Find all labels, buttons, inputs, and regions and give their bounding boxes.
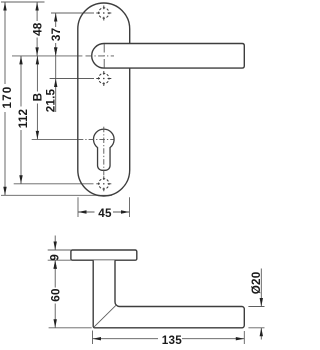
dimension 37 line <box>55 13 57 56</box>
dimension 112 arrows <box>19 56 22 184</box>
dimension 135 line <box>93 338 245 340</box>
hub horizontal centerline <box>86 55 115 57</box>
extension line cylinder center <box>32 138 78 140</box>
extension line 60 bottom <box>49 327 92 329</box>
backplate outline <box>78 3 130 196</box>
extension line plate top <box>1 1 45 3</box>
dimension 112 line <box>20 56 22 184</box>
dimension 48 line <box>36 2 38 56</box>
dimension B line <box>36 56 38 139</box>
dimension 21.5 arrows <box>54 47 57 87</box>
dimension 48 arrows <box>35 2 38 56</box>
svg-text:135: 135 <box>162 334 182 347</box>
svg-text:21.5: 21.5 <box>45 88 58 112</box>
dimension 170 arrows <box>3 2 6 195</box>
extension line plate bottom <box>1 194 112 196</box>
svg-text:60: 60 <box>49 288 62 302</box>
euro profile cylinder cutout <box>94 129 115 170</box>
dimension B arrows <box>36 56 39 139</box>
hub vertical centerline <box>103 44 105 68</box>
dimension 37 arrows <box>54 13 57 56</box>
cylinder vertical centerline <box>103 127 105 177</box>
svg-text:112: 112 <box>17 108 30 128</box>
dimension 45 arrows <box>78 210 130 213</box>
extension lines rose thickness <box>48 249 71 251</box>
svg-text:170: 170 <box>1 86 14 109</box>
svg-text:48: 48 <box>32 22 45 36</box>
top screw hole <box>96 6 111 21</box>
middle screw hole <box>96 71 111 86</box>
svg-text:45: 45 <box>98 207 112 220</box>
svg-text:Ø20: Ø20 <box>250 271 263 294</box>
dimension 9 arrows <box>54 242 57 269</box>
dimension 45 extension lines <box>77 197 79 217</box>
svg-text:37: 37 <box>50 28 63 41</box>
diameter 20 extension lines <box>248 306 264 308</box>
dimension 9 line <box>54 236 56 251</box>
cylinder horizontal centerline <box>78 138 114 140</box>
dimension 60 line <box>54 260 56 328</box>
dimension 170 line <box>4 2 6 195</box>
diameter 20 arrows <box>260 298 263 336</box>
extension line top screw center <box>51 12 94 14</box>
handle profile (neck + lever arm) <box>93 260 244 328</box>
diameter 20 dimension line <box>260 269 262 340</box>
lever handle (plan view) <box>92 44 245 69</box>
rose (round escutcheon, side) <box>71 250 137 260</box>
dimension 45 line <box>78 211 130 213</box>
elbow miter line <box>94 305 116 327</box>
extension line bottom screw center <box>14 183 94 185</box>
extension line handle center <box>12 55 82 57</box>
svg-text:9: 9 <box>48 254 61 261</box>
extension line screw 2 center <box>50 78 94 80</box>
bottom screw hole <box>96 176 111 191</box>
svg-text:B: B <box>32 93 45 102</box>
dimension 60 arrows <box>54 260 57 328</box>
dimension 135 extension lines <box>92 331 94 345</box>
dimension 21.5 line <box>55 56 57 79</box>
dimension 135 arrows <box>93 337 245 340</box>
